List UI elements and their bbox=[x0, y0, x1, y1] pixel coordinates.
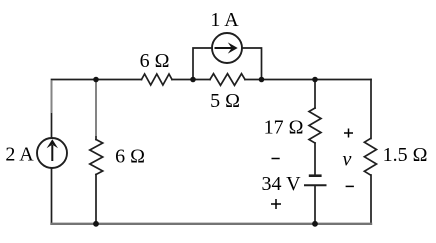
resistor R 5ohm bbox=[210, 74, 245, 86]
battery V1 34V short plate (negative) bbox=[309, 174, 322, 177]
wire below battery bbox=[314, 186, 316, 224]
polarity plus for v bbox=[344, 129, 353, 138]
svg-text:2 A: 2 A bbox=[5, 144, 34, 166]
node junction dot left of parallel pair bbox=[190, 77, 196, 83]
wire 6ohm branch lower bbox=[95, 175, 97, 224]
node junction dot bottom of 17ohm branch bbox=[312, 221, 318, 227]
svg-text:v: v bbox=[343, 149, 352, 171]
svg-text:34 V: 34 V bbox=[261, 173, 301, 195]
wire between 17ohm and battery bbox=[314, 143, 316, 175]
svg-text:5 Ω: 5 Ω bbox=[210, 90, 240, 112]
wire bottom horizontal bbox=[52, 223, 372, 225]
arrow of 2A source bbox=[47, 139, 58, 161]
wire 1A loop left riser bbox=[193, 48, 212, 80]
polarity plus below 34 V bbox=[271, 199, 281, 209]
battery V1 34V long plate (positive) bbox=[304, 184, 327, 186]
resistor R 6ohm horizontal bbox=[142, 74, 173, 85]
resistor R 17ohm bbox=[309, 108, 321, 143]
svg-text:6 Ω: 6 Ω bbox=[140, 50, 170, 72]
wire left branch upper bbox=[51, 112, 53, 138]
polarity minus above 34 V bbox=[272, 158, 280, 160]
node junction dot right of parallel pair bbox=[259, 77, 265, 83]
current source I2 2A circle bbox=[37, 138, 67, 168]
node junction dot top of 17ohm branch bbox=[312, 77, 318, 83]
wire top middle bbox=[172, 79, 210, 81]
wire 6ohm branch upper bbox=[95, 135, 97, 140]
svg-text:17 Ω: 17 Ω bbox=[264, 117, 304, 139]
node junction dot top of 6ohm branch bbox=[93, 77, 99, 83]
wire left branch upper gray part bbox=[51, 81, 53, 114]
wire left branch lower bbox=[51, 168, 53, 224]
node junction dot bottom of 6ohm branch bbox=[93, 221, 99, 227]
wire top right horizontal bbox=[245, 79, 371, 81]
current source I1 1A circle bbox=[212, 33, 242, 63]
wire top left horizontal bbox=[52, 79, 142, 81]
wire 1A loop right riser bbox=[242, 48, 262, 80]
arrow of 1A source bbox=[215, 42, 238, 53]
resistor R 6ohm vertical bbox=[90, 140, 103, 175]
svg-text:1.5 Ω: 1.5 Ω bbox=[383, 144, 428, 166]
polarity minus for v bbox=[346, 185, 354, 187]
wire right branch upper bbox=[370, 80, 372, 139]
wire 6ohm branch upper gray part bbox=[95, 81, 97, 137]
wire right branch lower bbox=[370, 175, 372, 224]
svg-text:1 A: 1 A bbox=[210, 9, 239, 31]
resistor R 1.5ohm bbox=[364, 139, 376, 176]
wire 17ohm branch upper bbox=[314, 80, 316, 109]
svg-text:6 Ω: 6 Ω bbox=[115, 146, 145, 168]
